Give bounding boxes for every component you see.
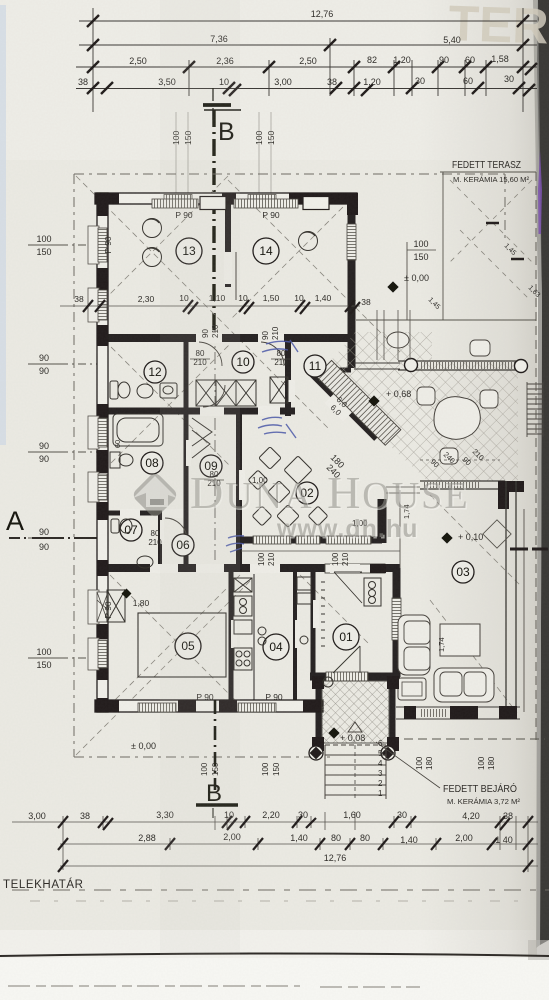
steps [325, 745, 386, 799]
divider 04|pantry [293, 568, 297, 707]
windows on walls (light strips) [88, 197, 401, 713]
lintel blocks top [200, 197, 226, 210]
roof eaves dashed outline [74, 174, 505, 757]
wall 08|07 [99, 511, 162, 516]
dim row 2 [79, 44, 537, 46]
left wall windows [98, 228, 107, 262]
TELEKHATAR dashed line [12, 889, 549, 891]
extension verticals [63, 816, 528, 872]
bath 08: tub [113, 414, 163, 446]
tick marks top [87, 15, 537, 96]
left wall window reveal boxes [88, 226, 99, 670]
left boundary [399, 490, 401, 568]
section marker B bottom [196, 803, 238, 807]
kitchen counter items [234, 578, 252, 592]
ticks row2 [58, 838, 533, 850]
dim lines [12, 812, 538, 872]
left dim labels [6, 234, 108, 670]
divider pantry|01 [311, 568, 316, 677]
bottom wall of room 01 [310, 673, 400, 681]
room 13 chairs [143, 219, 162, 238]
courtyard hatch area [316, 332, 543, 509]
right wall of top block [348, 200, 356, 368]
top wall windows [152, 199, 198, 208]
top wall band [95, 193, 357, 204]
two dark ticks [486, 223, 524, 259]
room 01 cabinet [364, 578, 381, 606]
bottom page lines [0, 954, 549, 957]
thick black L at terrace top-right [498, 481, 524, 509]
living south windows [253, 536, 291, 544]
porch left wall [316, 677, 322, 750]
sofas [398, 615, 430, 675]
top rotated 100/150 labels [171, 112, 276, 196]
stepped ramp band with perpendicular stripes [316, 360, 401, 445]
wardrobe X row [196, 380, 256, 406]
bottom wall band [95, 700, 323, 712]
corridor right / living left [236, 411, 242, 568]
room 05 inner rect [138, 613, 226, 677]
right railing ladder [527, 382, 543, 437]
section marker B top [203, 88, 241, 560]
right side 100/150 + dims [407, 239, 436, 262]
garden furniture white blobs [434, 397, 480, 440]
dim row 3 [76, 66, 537, 68]
mid wall between bedrooms and middle row [99, 334, 354, 342]
wall 07|06 [158, 513, 162, 568]
right wall of room 01 [393, 568, 401, 677]
blue pen scribbles [226, 340, 298, 552]
bedroom divider 13|14 [225, 203, 231, 287]
small racks room 05 top-left [107, 590, 125, 622]
corner chunks [312, 676, 324, 689]
dim row 4 [76, 88, 537, 90]
right wall top block window [347, 224, 356, 260]
room 14 chair [299, 232, 318, 251]
bottom wall windows [138, 703, 176, 712]
08 washbasin [110, 452, 120, 468]
100/210 rotated below living windows [200, 552, 496, 776]
80/210 stacked labels [148, 349, 291, 547]
composite exterior walls [95, 193, 358, 712]
courtyard top wall with columns [398, 361, 526, 370]
living room south wall [241, 537, 382, 544]
door gaps (white) [196, 333, 222, 343]
ticks row1 [58, 816, 533, 830]
extension verticals [93, 8, 523, 112]
level marks [131, 273, 483, 751]
room 12 wc [110, 381, 118, 399]
divider 10|11 [285, 338, 291, 416]
roof hip diagonals (faint dashed) [76, 176, 520, 755]
room 01 bottom window [326, 672, 368, 681]
pantry shelves [297, 577, 311, 590]
divider 05|04 [229, 568, 234, 707]
bottom wall with chunks [396, 707, 520, 719]
right scan shadow band [537, 0, 549, 945]
courtyard bottom wall (terrace 03 top) [420, 481, 505, 489]
07 wc [111, 519, 119, 533]
dim row 1 [79, 20, 537, 22]
porch right wall [390, 677, 396, 750]
wall right of room 12 / corridor left [184, 338, 189, 568]
ticks row3 [58, 860, 533, 872]
black diamond level symbols [122, 281, 453, 738]
living room diamonds (dining set) [284, 456, 312, 484]
kitchen counter edge [253, 574, 255, 705]
columns [309, 746, 323, 760]
X-shaft box next to room 10 [270, 377, 288, 403]
top wall of bottom block [99, 564, 400, 572]
wall under rooms 12/10/11 [99, 408, 295, 415]
room 04 bits [258, 627, 266, 635]
hip dashes in terrace [450, 180, 532, 300]
corridor stair chevrons [192, 418, 212, 458]
left wall band [97, 193, 108, 712]
triangle mark in porch [348, 722, 362, 732]
scan shading right side [420, 0, 537, 955]
purple streak [538, 150, 542, 234]
room 01 right window [392, 598, 401, 640]
living room east pier [378, 499, 387, 543]
rotated 90/210 pairs under bedroom doors [201, 324, 280, 340]
diagonal door gap [325, 385, 362, 422]
room 11 bottom closure [313, 368, 351, 373]
diagonal chamfer wall [310, 371, 377, 438]
right double wall [506, 481, 516, 712]
